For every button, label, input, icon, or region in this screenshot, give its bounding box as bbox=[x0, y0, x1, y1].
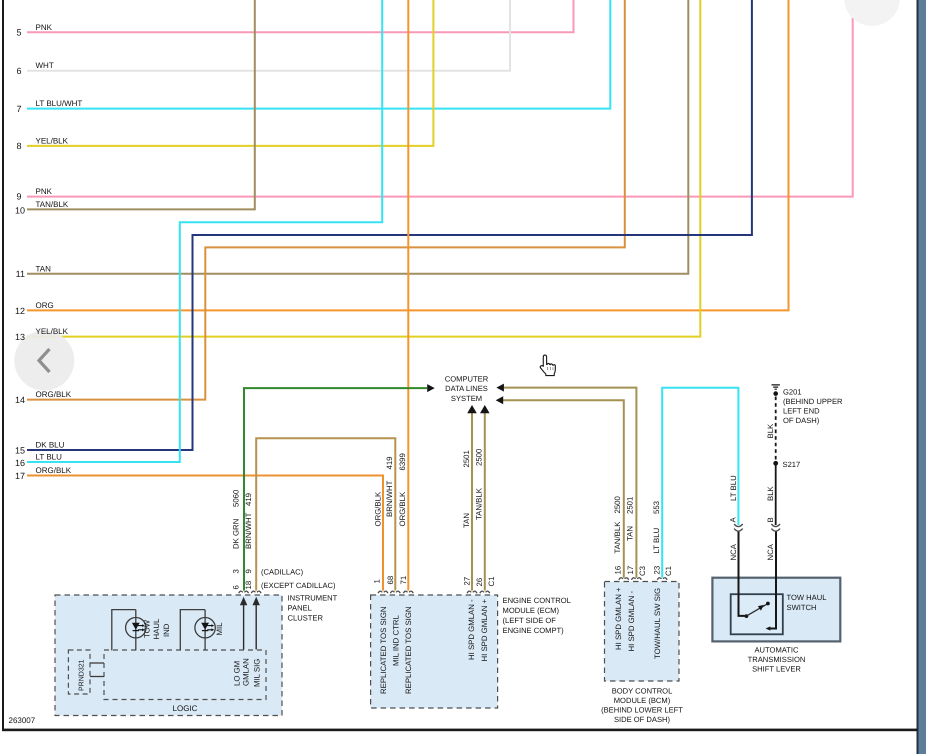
wire BLK connector A to tow haul switch bbox=[739, 532, 745, 616]
svg-text:TOW/HAUL SW SIG: TOW/HAUL SW SIG bbox=[653, 588, 662, 659]
svg-text:MIL IND CTRL: MIL IND CTRL bbox=[391, 615, 400, 666]
tow haul switch inner box bbox=[731, 594, 783, 634]
connector pin arcs cluster pin 18 bbox=[251, 591, 261, 593]
lamp TOW HAUL IND LED symbol bbox=[132, 623, 140, 630]
svg-text:LT BLU: LT BLU bbox=[36, 453, 63, 462]
arrow up TAN/BLK 2500 bbox=[480, 405, 490, 413]
mouse cursor bbox=[540, 355, 555, 375]
ground G201 symbol bbox=[772, 385, 780, 389]
wire row 16 LT BLU bbox=[27, 0, 382, 462]
svg-text:16: 16 bbox=[614, 566, 623, 575]
arrow up TAN 2501 bbox=[467, 405, 477, 413]
svg-text:27: 27 bbox=[462, 577, 471, 586]
lamp TOW HAUL IND wire loop bbox=[112, 610, 136, 651]
svg-text:CLUSTER: CLUSTER bbox=[288, 613, 324, 622]
svg-text:G201: G201 bbox=[783, 387, 802, 396]
wire row 10 TAN/BLK bbox=[27, 0, 255, 209]
svg-text:C1: C1 bbox=[487, 577, 496, 587]
wire row 14 ORG/BLK bbox=[27, 0, 625, 400]
svg-text:5060: 5060 bbox=[232, 489, 241, 507]
page border left bbox=[2, 0, 4, 731]
svg-text:1: 1 bbox=[373, 579, 382, 583]
svg-text:BODY CONTROL: BODY CONTROL bbox=[612, 687, 673, 696]
wire LT BLU 553 BCM pin 23 to connector A bbox=[662, 388, 738, 578]
PRND321 box bbox=[68, 650, 90, 694]
svg-text:2501: 2501 bbox=[626, 497, 635, 514]
svg-text:18: 18 bbox=[244, 581, 253, 590]
inline connector B arcs bbox=[771, 524, 780, 531]
wire row 7 LT BLU/WHT bbox=[27, 0, 610, 109]
svg-text:IND: IND bbox=[162, 623, 171, 637]
svg-text:5: 5 bbox=[16, 28, 21, 38]
arrow left TAN 2501 into computer data lines bbox=[496, 384, 504, 392]
LOGIC box bbox=[104, 650, 266, 700]
svg-text:(LEFT SIDE OF: (LEFT SIDE OF bbox=[503, 616, 557, 625]
svg-text:B: B bbox=[766, 517, 775, 522]
svg-text:9: 9 bbox=[244, 569, 253, 573]
svg-text:HAUL: HAUL bbox=[152, 618, 161, 639]
connector pin arcs BCM pin 23 bbox=[657, 578, 667, 580]
back nav button bbox=[14, 331, 74, 391]
svg-text:12: 12 bbox=[15, 306, 25, 316]
svg-text:17: 17 bbox=[15, 471, 25, 481]
svg-text:LO GM: LO GM bbox=[233, 661, 242, 686]
svg-text:10: 10 bbox=[15, 206, 25, 216]
connector pin arcs BCM pin 17 bbox=[632, 578, 642, 580]
arrow MIL SIG inside cluster bbox=[255, 604, 257, 650]
svg-text:DK GRN: DK GRN bbox=[232, 519, 241, 549]
svg-text:MIL: MIL bbox=[215, 622, 224, 636]
svg-text:TAN/BLK: TAN/BLK bbox=[613, 521, 622, 554]
svg-text:TAN/BLK: TAN/BLK bbox=[36, 200, 69, 209]
svg-text:6399: 6399 bbox=[398, 453, 407, 470]
wire BLK G201 dashed to S217 bbox=[775, 397, 777, 461]
svg-text:15: 15 bbox=[15, 446, 25, 456]
svg-text:553: 553 bbox=[652, 501, 661, 514]
arrow LO GM GMLAN inside cluster bbox=[243, 604, 245, 650]
svg-text:C1: C1 bbox=[664, 566, 673, 576]
svg-text:HI SPD GMLAN -: HI SPD GMLAN - bbox=[467, 599, 476, 660]
wire row 11 TAN bbox=[27, 0, 688, 274]
svg-text:8: 8 bbox=[16, 141, 21, 151]
svg-text:6: 6 bbox=[232, 585, 241, 589]
svg-text:ORG/BLK: ORG/BLK bbox=[398, 491, 407, 526]
wire row 5 PNK bbox=[27, 0, 574, 32]
svg-text:17: 17 bbox=[626, 566, 635, 575]
tow haul switch contact dot bbox=[766, 602, 770, 606]
svg-text:419: 419 bbox=[244, 493, 253, 506]
svg-text:9: 9 bbox=[16, 192, 21, 202]
ground G201 dot bbox=[773, 391, 778, 396]
svg-text:2500: 2500 bbox=[474, 448, 483, 466]
svg-text:26: 26 bbox=[475, 578, 484, 587]
svg-text:DK BLU: DK BLU bbox=[36, 441, 65, 450]
wire PRND321 to LOGIC lower bbox=[90, 676, 104, 678]
svg-text:BRN/WHT: BRN/WHT bbox=[385, 480, 394, 517]
svg-text:MIL SIG: MIL SIG bbox=[253, 659, 262, 687]
svg-text:OF DASH): OF DASH) bbox=[783, 416, 820, 425]
tow haul switch blade arrowhead bbox=[758, 605, 764, 611]
wire row 9 PNK bbox=[27, 0, 853, 197]
svg-text:MODULE (BCM): MODULE (BCM) bbox=[614, 696, 671, 705]
svg-text:REPLICATED TOS SIGN: REPLICATED TOS SIGN bbox=[379, 606, 388, 694]
svg-text:(BEHIND UPPER: (BEHIND UPPER bbox=[783, 397, 843, 406]
svg-text:2501: 2501 bbox=[462, 450, 471, 467]
wire PRND321 to LOGIC upper bbox=[90, 662, 104, 664]
svg-text:71: 71 bbox=[399, 576, 408, 585]
svg-text:(EXCEPT CADILLAC): (EXCEPT CADILLAC) bbox=[261, 581, 336, 590]
scrollbar right dark edge bbox=[917, 0, 919, 754]
svg-text:3: 3 bbox=[232, 569, 241, 573]
wire BRN/WHT 419 cluster to ECM pin 68 bbox=[256, 438, 395, 590]
svg-text:SHIFT LEVER: SHIFT LEVER bbox=[752, 665, 801, 674]
svg-text:6: 6 bbox=[16, 66, 21, 76]
wire TAN/BLK 2500 data line to BCM pin 16 bbox=[503, 400, 624, 578]
svg-text:LOGIC: LOGIC bbox=[173, 704, 198, 713]
connector pin arcs ECM pin 26 bbox=[480, 591, 490, 593]
svg-text:BRN/WHT: BRN/WHT bbox=[244, 512, 253, 549]
svg-text:TAN: TAN bbox=[462, 513, 471, 528]
wire row 13 YEL/BLK bbox=[27, 0, 700, 337]
splice S217 dot bbox=[773, 461, 778, 466]
svg-text:NCA: NCA bbox=[729, 543, 738, 560]
connector pin arcs ECM pin 1 bbox=[378, 591, 388, 593]
page border bottom bbox=[2, 729, 918, 732]
svg-text:HI SPD GMLAN -: HI SPD GMLAN - bbox=[627, 590, 636, 651]
svg-text:LT BLU: LT BLU bbox=[729, 475, 738, 501]
svg-text:A: A bbox=[728, 517, 737, 523]
connector pin arcs ECM pin 27 bbox=[467, 591, 477, 593]
automatic transmission shift lever box bbox=[712, 578, 840, 642]
wire TAN 2501 data line to BCM pin 17 bbox=[504, 388, 637, 578]
svg-text:BLK: BLK bbox=[766, 423, 775, 439]
svg-text:TOW HAUL: TOW HAUL bbox=[787, 593, 827, 602]
svg-text:ORG/BLK: ORG/BLK bbox=[36, 466, 72, 475]
wire BLK connector B to tow haul switch bbox=[770, 532, 777, 629]
connector pin arcs cluster pin 6 bbox=[239, 591, 249, 593]
svg-text:419: 419 bbox=[385, 456, 394, 469]
inline connector A arcs bbox=[734, 524, 743, 531]
svg-text:SIDE OF DASH): SIDE OF DASH) bbox=[614, 715, 671, 724]
wire DK GRN 5060 cluster to computer data lines bbox=[244, 388, 427, 590]
svg-text:SWITCH: SWITCH bbox=[787, 603, 817, 612]
instrument panel cluster box bbox=[55, 595, 282, 716]
svg-text:SYSTEM: SYSTEM bbox=[451, 394, 482, 403]
wire row 6 WHT bbox=[27, 0, 510, 71]
svg-text:LT BLU/WHT: LT BLU/WHT bbox=[36, 99, 83, 108]
lamp MIL wire loop bbox=[180, 610, 205, 651]
svg-text:11: 11 bbox=[16, 269, 25, 279]
svg-text:HI SPD GMLAN +: HI SPD GMLAN + bbox=[480, 598, 489, 661]
connector pin arcs ECM pin 71 bbox=[403, 591, 413, 593]
tow haul switch B terminal arrow bbox=[766, 626, 771, 630]
wire row 15 DK BLU bbox=[27, 0, 752, 450]
svg-text:68: 68 bbox=[386, 576, 395, 585]
svg-text:MODULE (ECM): MODULE (ECM) bbox=[503, 606, 560, 615]
svg-text:PNK: PNK bbox=[36, 187, 53, 196]
wire TAN 2501 ECM pin 27 bbox=[471, 413, 473, 591]
scrollbar right bar bbox=[919, 0, 926, 754]
ECM box bbox=[371, 595, 498, 708]
right nav button faded bbox=[844, 0, 900, 26]
lamp MIL LED symbol bbox=[201, 623, 209, 630]
svg-text:PANEL: PANEL bbox=[288, 603, 312, 612]
svg-text:DATA LINES: DATA LINES bbox=[445, 384, 488, 393]
svg-text:HI SPD GMLAN +: HI SPD GMLAN + bbox=[614, 587, 623, 650]
svg-text:TAN: TAN bbox=[36, 264, 52, 273]
svg-text:13: 13 bbox=[15, 332, 25, 342]
svg-text:YEL/BLK: YEL/BLK bbox=[36, 327, 69, 336]
svg-text:LT BLU: LT BLU bbox=[652, 527, 661, 553]
svg-text:ORG/BLK: ORG/BLK bbox=[374, 491, 383, 526]
svg-text:GMLAN: GMLAN bbox=[242, 658, 251, 686]
svg-text:(BEHIND LOWER LEFT: (BEHIND LOWER LEFT bbox=[601, 706, 683, 715]
wire row 12 ORG bbox=[27, 0, 789, 310]
connector pin arcs BCM pin 16 bbox=[619, 578, 629, 580]
wire row 8 YEL/BLK bbox=[27, 0, 433, 146]
svg-text:INSTRUMENT: INSTRUMENT bbox=[288, 593, 338, 602]
svg-text:(CADILLAC): (CADILLAC) bbox=[261, 568, 304, 577]
svg-text:ORG/BLK: ORG/BLK bbox=[36, 390, 72, 399]
svg-text:REPLICATED TOS SIGN: REPLICATED TOS SIGN bbox=[404, 606, 413, 694]
svg-text:YEL/BLK: YEL/BLK bbox=[36, 136, 69, 145]
wire BLK S217 to connector B bbox=[775, 463, 777, 525]
lamp MIL circle bbox=[195, 618, 215, 638]
svg-text:16: 16 bbox=[15, 458, 25, 468]
svg-text:PRND321: PRND321 bbox=[79, 659, 86, 691]
wire TAN/BLK 2500 ECM pin 26 bbox=[484, 413, 486, 591]
svg-text:ENGINE COMPT): ENGINE COMPT) bbox=[503, 626, 565, 635]
svg-text:ENGINE CONTROL: ENGINE CONTROL bbox=[503, 596, 571, 605]
svg-text:C3: C3 bbox=[638, 566, 647, 576]
svg-text:ORG: ORG bbox=[36, 301, 54, 310]
svg-text:14: 14 bbox=[15, 395, 25, 405]
svg-text:2500: 2500 bbox=[613, 495, 622, 513]
svg-text:7: 7 bbox=[16, 104, 21, 114]
svg-text:AUTOMATIC: AUTOMATIC bbox=[754, 645, 799, 654]
svg-text:NCA: NCA bbox=[766, 543, 775, 560]
svg-text:LEFT END: LEFT END bbox=[783, 406, 820, 415]
svg-text:COMPUTER: COMPUTER bbox=[445, 375, 489, 384]
connector pin arcs ECM pin 68 bbox=[390, 591, 400, 593]
svg-text:BLK: BLK bbox=[766, 485, 775, 501]
lamp TOW HAUL IND circle bbox=[126, 618, 146, 638]
back nav chevron bbox=[39, 349, 50, 372]
svg-text:TAN/BLK: TAN/BLK bbox=[474, 487, 483, 520]
arrow right DK GRN into computer data lines bbox=[427, 384, 435, 392]
wire row 17 ORG/BLK to ECM pin 1 bbox=[27, 476, 383, 591]
svg-text:263007: 263007 bbox=[9, 716, 36, 725]
BCM box bbox=[605, 582, 680, 682]
svg-text:WHT: WHT bbox=[36, 61, 54, 70]
wire ORG/BLK 6399 to ECM pin 71 bbox=[407, 0, 409, 591]
svg-text:TRANSMISSION: TRANSMISSION bbox=[748, 655, 806, 664]
tow haul switch symbol common dot bbox=[745, 614, 749, 618]
arrow left TAN/BLK 2500 into computer data lines bbox=[496, 396, 504, 404]
svg-text:23: 23 bbox=[652, 566, 661, 575]
svg-text:TAN: TAN bbox=[626, 526, 635, 541]
svg-text:S217: S217 bbox=[783, 460, 801, 469]
svg-text:TOW: TOW bbox=[143, 619, 152, 638]
svg-text:PNK: PNK bbox=[36, 23, 53, 32]
tow haul switch blade bbox=[746, 604, 766, 616]
